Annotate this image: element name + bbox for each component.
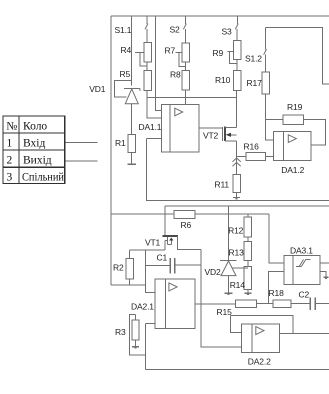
wire DA2.2 output xyxy=(280,332,329,334)
VD1 side loop xyxy=(114,81,131,97)
wire VT2 source down xyxy=(236,141,238,175)
resistor R11 xyxy=(233,175,240,193)
capacitor C2 xyxy=(310,297,329,309)
svg-text:R15: R15 xyxy=(217,307,233,317)
terminal xyxy=(323,276,328,278)
svg-text:R10: R10 xyxy=(215,75,231,85)
svg-text:DA2.1: DA2.1 xyxy=(131,302,154,312)
wire R3 link xyxy=(129,315,145,356)
svg-text:R9: R9 xyxy=(213,48,224,58)
switch S1.1 xyxy=(146,16,148,24)
resistor R4 xyxy=(144,43,151,62)
resistor R16 xyxy=(246,153,266,161)
terminal under R11 xyxy=(233,197,240,199)
svg-text:R7: R7 xyxy=(165,46,176,56)
svg-text:R17: R17 xyxy=(247,78,263,88)
chevron marks xyxy=(233,158,241,162)
svg-text:R18: R18 xyxy=(269,288,285,298)
resistor R7 xyxy=(182,43,189,62)
switch S3 xyxy=(236,16,238,24)
wire rail C right xyxy=(195,213,269,215)
wire R10 down to VT2 drain xyxy=(236,90,238,127)
svg-text:Вхід: Вхід xyxy=(23,137,45,149)
op-amp DA1.2 xyxy=(274,132,311,161)
resistor R18 xyxy=(273,300,291,307)
wire VT1 source xyxy=(178,236,201,249)
svg-text:S1.1: S1.1 xyxy=(115,25,132,35)
wire junction up to DA3.1 xyxy=(268,272,284,304)
wire R14 to terminal xyxy=(247,290,249,293)
svg-text:2: 2 xyxy=(7,154,13,166)
op-amp DA1.1 xyxy=(161,104,199,152)
wire left rail xyxy=(110,16,112,285)
resistor R6 xyxy=(174,211,195,219)
wire R13-R14 xyxy=(247,261,249,267)
wire R9-R10 junction xyxy=(236,60,238,71)
R7 tap bracket xyxy=(176,52,182,54)
svg-text:C2: C2 xyxy=(299,290,310,300)
resistor R15 xyxy=(235,300,256,307)
diode VD1 xyxy=(124,88,140,134)
wire R4-R5 junction xyxy=(146,62,148,71)
switch S2 xyxy=(184,16,186,24)
op-amp DA2.2 xyxy=(241,324,279,353)
wire top bus to DA1.1 upper input xyxy=(156,16,162,111)
wire gate lead from R2 xyxy=(130,249,165,251)
resistor R17 xyxy=(262,72,269,94)
svg-text:C1: C1 xyxy=(157,253,168,263)
wire DA3.1 output xyxy=(320,262,329,264)
svg-text:Коло: Коло xyxy=(23,120,47,132)
wire top bus xyxy=(111,15,329,17)
svg-text:R14: R14 xyxy=(230,280,246,290)
svg-text:VT2: VT2 xyxy=(203,131,219,141)
resistor R12 xyxy=(244,217,251,237)
wire R17 down to DA1.2 input xyxy=(266,94,274,140)
resistor R8 xyxy=(182,70,189,90)
wire R15 to R18 xyxy=(256,303,273,305)
resistor R3 xyxy=(135,315,137,321)
wire R16 tap xyxy=(237,156,246,158)
svg-text:R16: R16 xyxy=(244,142,260,152)
wire R7-R8 junction xyxy=(184,62,186,70)
svg-text:VT1: VT1 xyxy=(145,238,161,248)
switch S1.2 branch xyxy=(266,28,329,84)
wire VD1 branch from top bus xyxy=(131,16,133,86)
svg-text:DA1.2: DA1.2 xyxy=(281,165,304,175)
svg-text:Вихід: Вихід xyxy=(23,154,52,166)
resistor R14 xyxy=(244,267,251,290)
op-amp DA2.1 xyxy=(155,279,195,328)
wire R1 to terminal xyxy=(131,153,133,165)
wire R18 to C2 xyxy=(291,303,310,305)
wire table stub 2 xyxy=(65,160,98,162)
resistor R9 xyxy=(234,40,241,59)
wire DA1.1 output xyxy=(199,127,222,129)
transistor VT2 xyxy=(223,127,237,142)
wire R12 top lead xyxy=(247,214,249,217)
wire source node down xyxy=(201,250,242,347)
R4 tap bracket xyxy=(135,52,144,54)
wire R8 to bus and DA1.1 top xyxy=(184,90,186,104)
svg-text:DA1.1: DA1.1 xyxy=(139,122,162,132)
transistor VT1 xyxy=(163,236,178,250)
svg-text:VD1: VD1 xyxy=(89,84,106,94)
svg-text:3: 3 xyxy=(7,172,13,184)
wire R12-R13 xyxy=(247,237,249,241)
wire R19 feedback loop xyxy=(304,120,326,146)
resistor R10 xyxy=(234,70,241,90)
svg-text:S2: S2 xyxy=(170,25,181,35)
svg-text:R3: R3 xyxy=(115,327,126,337)
wire rail C down to DA3.1 xyxy=(269,214,284,263)
svg-text:VD2: VD2 xyxy=(205,267,222,277)
svg-text:S1.2: S1.2 xyxy=(245,54,262,64)
capacitor C1 xyxy=(145,258,201,273)
wire R5 to DA1.1 input xyxy=(147,90,161,118)
wire rail B xyxy=(165,205,329,207)
wire rail A feedback xyxy=(147,137,162,139)
wire R11 to terminal xyxy=(236,193,238,198)
resistor R13 xyxy=(244,241,251,260)
svg-text:R13: R13 xyxy=(229,248,245,258)
svg-text:1: 1 xyxy=(7,137,13,149)
connection table xyxy=(3,116,65,184)
wire DA3.1 second pin xyxy=(320,272,326,277)
wire rail C left xyxy=(111,213,174,215)
terminal under R3 xyxy=(132,346,139,348)
svg-text:R19: R19 xyxy=(287,102,303,112)
svg-text:DA2.2: DA2.2 xyxy=(248,357,271,367)
wire common rail to DA2.1 input xyxy=(111,284,145,286)
comparator DA3.1 xyxy=(284,255,320,284)
svg-text:S3: S3 xyxy=(222,27,233,37)
wire R16 to DA1.2 xyxy=(266,156,274,158)
svg-text:R6: R6 xyxy=(181,220,192,230)
resistor R19 xyxy=(283,115,304,125)
wire VD2 tap to divider xyxy=(233,267,248,269)
wire VT1 drain xyxy=(164,206,166,236)
svg-text:Спільний: Спільний xyxy=(22,172,64,184)
svg-text:R1: R1 xyxy=(115,138,126,148)
diode VD2 xyxy=(220,206,248,294)
svg-text:№: № xyxy=(6,120,17,132)
wire C1 node down to DA2.1 xyxy=(145,250,154,292)
svg-text:R4: R4 xyxy=(121,45,132,55)
wire bottom bus xyxy=(146,369,329,371)
svg-text:R11: R11 xyxy=(215,180,230,190)
wire DA2.1 output xyxy=(195,303,236,305)
wire R19 left tap xyxy=(266,119,283,121)
svg-text:R5: R5 xyxy=(120,69,131,79)
terminal under R14 xyxy=(245,292,252,294)
wire DA2.1 inverting input xyxy=(146,322,155,324)
svg-text:R12: R12 xyxy=(228,226,244,236)
R9 tap bracket xyxy=(227,50,233,52)
resistor R2 xyxy=(129,250,131,259)
wire DA2.2 upper input xyxy=(230,316,241,333)
svg-text:DA3.1: DA3.1 xyxy=(290,246,313,256)
svg-text:R2: R2 xyxy=(113,263,124,273)
wire feedback rail to DA2.2 xyxy=(230,316,292,334)
wire table stub 1 xyxy=(65,142,98,144)
svg-text:R8: R8 xyxy=(170,70,181,80)
resistor R5 xyxy=(144,70,151,90)
terminal under R1 xyxy=(128,163,136,165)
resistor R1 xyxy=(128,134,135,152)
wire mid bus xyxy=(147,97,237,99)
